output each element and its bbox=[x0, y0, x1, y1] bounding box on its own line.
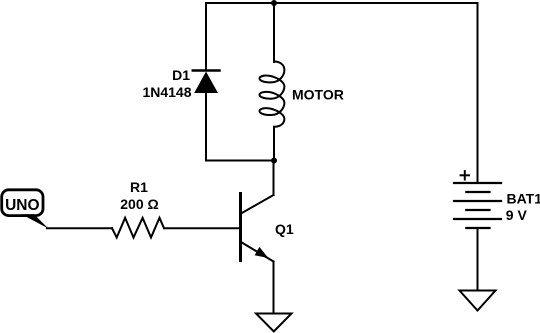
ground (battery) bbox=[460, 291, 496, 311]
svg-text:MOTOR: MOTOR bbox=[292, 87, 344, 103]
diode D1 bbox=[193, 71, 220, 94]
motor M1 coil bbox=[260, 62, 285, 127]
wire UNO to resistor bbox=[47, 227, 112, 229]
UNO tail bbox=[22, 214, 49, 228]
wire battery bottom bbox=[477, 228, 479, 291]
wire diode bottom bbox=[205, 92, 207, 161]
wire resistor to base bbox=[164, 227, 239, 229]
svg-text:Q1: Q1 bbox=[275, 221, 294, 237]
wire diode top bbox=[205, 3, 207, 71]
transistor Q1 bbox=[241, 161, 274, 314]
wire motor top bbox=[273, 3, 275, 62]
svg-text:R1: R1 bbox=[130, 179, 148, 195]
svg-text:BAT1: BAT1 bbox=[507, 190, 540, 206]
svg-text:9 V: 9 V bbox=[506, 207, 528, 223]
wire top rail bbox=[206, 2, 478, 4]
svg-text:D1: D1 bbox=[172, 67, 190, 83]
resistor R1 zigzag bbox=[112, 218, 164, 238]
battery BAT1 bbox=[454, 183, 501, 228]
UNO connector box bbox=[2, 190, 43, 216]
wire bottom link bbox=[206, 160, 274, 162]
svg-text:200 Ω: 200 Ω bbox=[120, 196, 158, 212]
svg-text:UNO: UNO bbox=[5, 197, 39, 214]
wire battery top bbox=[477, 3, 479, 183]
wire motor bottom bbox=[273, 127, 275, 161]
node junction top bbox=[271, 0, 277, 6]
ground (transistor) bbox=[256, 314, 292, 332]
node junction bottom bbox=[271, 158, 277, 164]
svg-text:1N4148: 1N4148 bbox=[142, 84, 191, 100]
battery plus sign bbox=[461, 171, 469, 179]
